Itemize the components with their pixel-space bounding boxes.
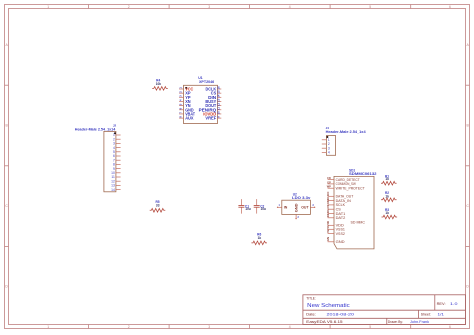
J2 pin 12 [116,180,121,182]
svg-text:CS: CS [326,205,330,209]
connector J2 Header-Male 2.54_1x14 [75,124,121,192]
svg-text:AUX: AUX [185,116,193,121]
svg-text:1k: 1k [385,177,389,181]
op-amp U1 XPT2046 touch controller [178,76,221,124]
svg-text:John.Frank: John.Frank [410,320,429,324]
svg-text:16: 16 [216,86,220,90]
R2 zigzag [381,198,397,202]
svg-text:2: 2 [128,325,130,329]
svg-text:4: 4 [289,325,291,329]
U1 pin 12 DOUT [218,105,222,107]
SD1 pin 7 DATA_OUT [328,195,334,197]
svg-text:Header-Male 2.54_1x14: Header-Male 2.54_1x14 [75,127,116,131]
svg-text:CK: CK [326,200,330,204]
U1 pin 10 IOVDD [218,113,222,115]
svg-text:4: 4 [289,5,291,9]
J4 pin 1 [322,139,327,141]
svg-text:13: 13 [216,98,220,102]
svg-text:GN: GN [326,237,330,241]
voltage regulator U2 LDO 3.3v [277,193,315,220]
svg-text:VREF: VREF [205,116,216,121]
svg-text:4: 4 [328,151,330,155]
resistor R6 [251,232,267,244]
SD1 pin 6 VSS2 [328,233,334,235]
svg-text:6: 6 [449,325,451,329]
svg-text:WP: WP [327,186,331,189]
resistor R3 [382,208,398,219]
svg-text:5: 5 [369,5,371,9]
J2 pin 3 [116,142,121,144]
svg-text:15: 15 [216,90,220,94]
svg-text:CD: CD [327,177,331,180]
svg-text:10k: 10k [156,82,162,86]
svg-text:1k: 1k [385,211,389,215]
svg-text:LDO 3.3v: LDO 3.3v [292,196,311,200]
U2 pin 3 OUT [310,206,314,208]
J2 pin 6 [116,155,121,157]
SD1 pin 9 DAT2 [328,217,334,219]
resistor R2 [381,191,397,201]
svg-text:Date:: Date: [306,312,316,316]
SD1 pin 1 CS [328,208,334,210]
svg-text:11: 11 [216,107,220,110]
svg-text:1: 1 [47,325,49,329]
svg-text:EasyEDA V5.6.15: EasyEDA V5.6.15 [306,320,342,324]
R4 zigzag [152,87,168,91]
J2 pin 8 [116,163,121,165]
svg-text:D1: D1 [326,209,330,213]
SD1 pin G GND [328,241,334,243]
svg-text:TITLE:: TITLE: [306,297,316,301]
U1 pin 13 BUSY [218,100,222,102]
svg-text:GP: GP [327,181,331,184]
U1 pin 9 VREF [218,117,222,119]
svg-text:New Schematic: New Schematic [307,303,350,309]
U1 pin 14 DIN [218,96,222,98]
connector SD1 SDMMC06132 [326,168,377,249]
R1 zigzag [381,181,397,185]
svg-text:10: 10 [216,111,220,115]
SD1 pin GP COMMON_SW [328,183,334,185]
J2 pin 13 [116,184,121,186]
svg-text:14: 14 [216,94,220,98]
svg-text:2018-08-20: 2018-08-20 [327,312,356,317]
svg-text:V1: V1 [326,225,330,229]
U1 pin 4 XN [179,100,183,102]
svg-text:SD MMC: SD MMC [351,220,366,224]
J4 pin 4 [322,151,327,153]
SD1 pin CD CARD_DETECT [328,179,334,181]
svg-text:REV:: REV: [437,302,446,306]
U2 pin 1 IN [278,206,282,208]
J2 pin 11 [116,176,121,178]
SD1 pin 5 SCLK [328,204,334,206]
svg-text:XPT2046: XPT2046 [199,80,214,84]
svg-text:D2: D2 [326,213,330,217]
U1 pin 7 VBAT [179,113,183,115]
svg-text:IN: IN [284,206,288,210]
svg-text:OUT: OUT [301,206,309,210]
J4 pin 3 [322,147,327,149]
J2 pin 14 [116,189,121,191]
connector J4 Header-Male 2.54_1x4 [322,126,366,155]
U1 pin 5 YN [179,105,183,107]
J2 pin 5 [116,151,121,153]
SD1 pin 3 VSS1 [328,228,334,230]
svg-text:WRITE_PROTECT: WRITE_PROTECT [336,187,366,191]
svg-text:1/1: 1/1 [438,313,445,317]
R6 zigzag [251,241,267,245]
U1 pin 3 YP [179,96,183,98]
U1 pin 6 GND [179,109,183,111]
J2 pin 10 [116,172,121,174]
J2 pin 4 [116,147,121,149]
J2 pin 9 [116,168,121,170]
svg-text:2: 2 [128,5,130,9]
svg-text:GND: GND [336,240,345,244]
R5 zigzag [150,209,166,213]
svg-text:1: 1 [47,5,49,9]
svg-text:Sheet:: Sheet: [421,312,431,316]
svg-text:DAT2: DAT2 [336,216,346,220]
svg-text:V2: V2 [326,229,330,233]
U1 pin 8 AUX [179,117,183,119]
J2 pin 7 [116,159,121,161]
svg-text:3: 3 [208,325,210,329]
U1 pin 16 DCLK [218,88,222,90]
title block [303,295,466,325]
U1 pin 15 CS [218,92,222,94]
svg-text:5: 5 [369,325,371,329]
svg-text:10u: 10u [245,207,251,211]
svg-text:14: 14 [111,188,115,192]
U1 pin 11 PENIRQ [218,109,222,111]
R3 zigzag [382,215,398,219]
J2 pin 1 marker dot [114,132,116,134]
resistor R1 [381,174,397,185]
svg-text:3: 3 [208,5,210,9]
SD1 pin 4 VDD [328,224,334,226]
svg-text:10u: 10u [261,207,267,211]
svg-text:1k: 1k [385,194,389,198]
capacitor C2 [254,199,266,214]
svg-text:1k: 1k [258,236,262,240]
svg-text:Header-Male 2.54_1x4: Header-Male 2.54_1x4 [326,130,366,134]
svg-text:33: 33 [156,204,160,208]
SD1 pin 2 DATA_IN [328,200,334,202]
U2 pin 2 GND [295,214,297,218]
svg-text:SDMMC06132: SDMMC06132 [349,172,377,176]
capacitor C1 [238,199,250,214]
svg-text:6: 6 [449,5,451,9]
J2 pin 2 [116,138,121,140]
J2 pin 1 [116,134,121,136]
svg-text:VD: VD [326,221,330,225]
U1 pin 1 VCC [179,88,183,90]
J4 pin 1 marker dot [326,136,328,138]
SD1 pin WP WRITE_PROTECT [328,187,334,189]
J4 pin 2 [322,143,327,145]
SD1 pin 8 DAT1 [328,213,334,215]
svg-text:Drawn By:: Drawn By: [388,320,403,324]
svg-text:VSS2: VSS2 [336,232,345,236]
svg-text:1.0: 1.0 [450,302,458,306]
U1 pin 2 XP [179,92,183,94]
U1 pin 1 marker dot [185,87,187,89]
svg-text:DI: DI [326,197,330,200]
svg-text:GND: GND [295,203,299,212]
resistor R4 [152,78,168,90]
resistor R5 [150,200,166,212]
svg-text:12: 12 [216,102,220,106]
